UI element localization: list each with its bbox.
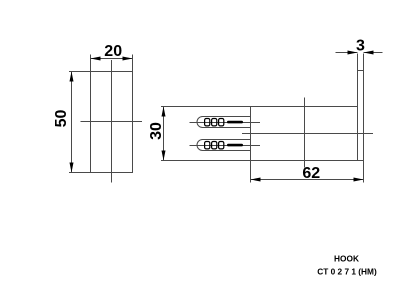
dim 30 dimension line	[163, 107, 165, 161]
svg-text:3: 3	[356, 38, 365, 55]
slot 2 rib square b	[212, 142, 217, 149]
slot 1 rib square c	[219, 119, 224, 126]
dim 3 dimension line right part	[364, 52, 383, 54]
slot 1 solid dash	[227, 121, 243, 124]
side view body bottom line	[161, 160, 364, 162]
svg-text:50: 50	[53, 110, 70, 128]
back plate top edge	[358, 70, 364, 72]
slot 2 rib square c	[219, 142, 224, 149]
svg-text:62: 62	[302, 165, 320, 182]
side view inner vertical edge	[304, 98, 306, 168]
dim 30 arrow top	[162, 107, 166, 117]
slot 2 solid dash	[227, 144, 243, 147]
dim 20 extension line left	[90, 55, 92, 72]
svg-text:20: 20	[104, 43, 122, 60]
dim 62 dimension line	[251, 179, 364, 181]
side view body top line	[161, 106, 358, 108]
dim 50 arrow bottom	[70, 163, 74, 173]
slot 1 obround outline	[197, 117, 250, 128]
slot 2 centerline	[190, 145, 261, 147]
dim 50 extension line bottom	[69, 172, 91, 174]
dim 62 arrow left	[251, 178, 261, 182]
back plate left edge	[357, 54, 359, 161]
slot 1 centerline	[190, 122, 261, 124]
dim 62 arrow right	[354, 178, 364, 182]
slot 2 obround outline	[197, 140, 250, 151]
side view body horizontal centerline	[242, 133, 373, 135]
dim 20 dimension line	[91, 58, 133, 60]
dim 3 dimension line left part	[336, 52, 358, 54]
dim 20 arrow left	[91, 57, 101, 61]
front view horizontal centerline	[81, 121, 143, 123]
back plate right edge / dim 62 extension	[363, 54, 365, 183]
dim 50 dimension line	[71, 72, 73, 173]
svg-text:HOOK: HOOK	[334, 253, 359, 263]
dim 20 extension line right	[132, 55, 134, 72]
dim 3 arrow left (points right)	[348, 51, 358, 55]
svg-text:30: 30	[148, 122, 165, 140]
dim 3 arrow right (points left)	[364, 51, 374, 55]
front view rectangle (20x50 plate)	[91, 72, 133, 173]
dim 30 arrow bottom	[162, 151, 166, 161]
slot 2 rib square a	[205, 142, 210, 149]
slot 1 rib square b	[212, 119, 217, 126]
dim 50 extension line top	[69, 71, 91, 73]
dim 62 extension line left / slot end edge	[250, 107, 252, 183]
front view vertical centerline	[111, 60, 113, 183]
svg-text:CT 0 2 7 1 (HM): CT 0 2 7 1 (HM)	[317, 266, 377, 276]
slot 1 rib square a	[205, 119, 210, 126]
dim 20 arrow right	[123, 57, 133, 61]
dim 50 arrow top	[70, 72, 74, 82]
